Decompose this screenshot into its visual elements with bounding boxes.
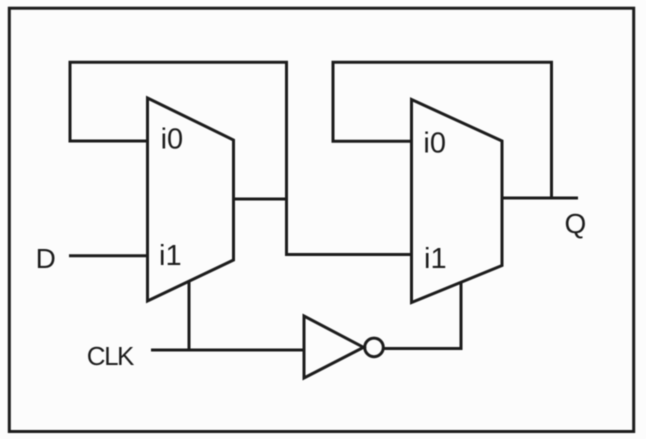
svg-text:D: D — [36, 243, 56, 274]
svg-text:i1: i1 — [424, 243, 447, 275]
svg-text:i0: i0 — [423, 128, 446, 160]
svg-text:i1: i1 — [159, 240, 182, 272]
svg-text:Q: Q — [565, 208, 587, 239]
svg-text:CLK: CLK — [87, 341, 135, 371]
svg-text:i0: i0 — [161, 124, 184, 156]
